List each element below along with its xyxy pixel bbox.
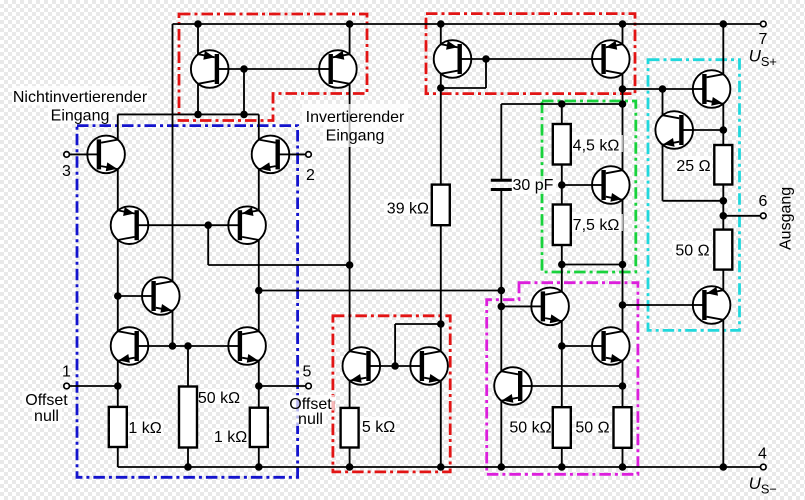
svg-text:50 kΩ: 50 kΩ: [198, 390, 240, 407]
svg-text:Ausgang: Ausgang: [778, 187, 795, 250]
svg-text:Nichtinvertierender: Nichtinvertierender: [13, 89, 148, 106]
svg-text:3: 3: [62, 163, 71, 180]
svg-text:5 kΩ: 5 kΩ: [362, 419, 395, 436]
svg-text:7,5 kΩ: 7,5 kΩ: [573, 217, 620, 234]
svg-text:5: 5: [303, 363, 312, 380]
svg-text:39 kΩ: 39 kΩ: [387, 200, 429, 217]
svg-text:1 kΩ: 1 kΩ: [128, 420, 161, 437]
svg-text:30 pF: 30 pF: [513, 177, 554, 194]
svg-text:50 Ω: 50 Ω: [575, 419, 609, 436]
svg-text:Eingang: Eingang: [51, 108, 110, 125]
svg-text:25 Ω: 25 Ω: [676, 158, 710, 175]
svg-text:1 kΩ: 1 kΩ: [214, 429, 247, 446]
svg-text:4: 4: [758, 446, 767, 463]
svg-text:50 kΩ: 50 kΩ: [509, 419, 551, 436]
svg-text:7: 7: [759, 31, 768, 48]
svg-text:1: 1: [62, 363, 71, 380]
svg-text:Eingang: Eingang: [326, 128, 385, 145]
svg-text:6: 6: [759, 193, 768, 210]
svg-text:4,5 kΩ: 4,5 kΩ: [573, 138, 620, 155]
svg-text:50 Ω: 50 Ω: [675, 243, 709, 260]
svg-text:Invertierender: Invertierender: [306, 109, 405, 126]
svg-text:2: 2: [306, 167, 315, 184]
svg-text:null: null: [34, 408, 59, 425]
svg-text:null: null: [298, 411, 323, 428]
svg-text:Offset: Offset: [25, 392, 68, 409]
